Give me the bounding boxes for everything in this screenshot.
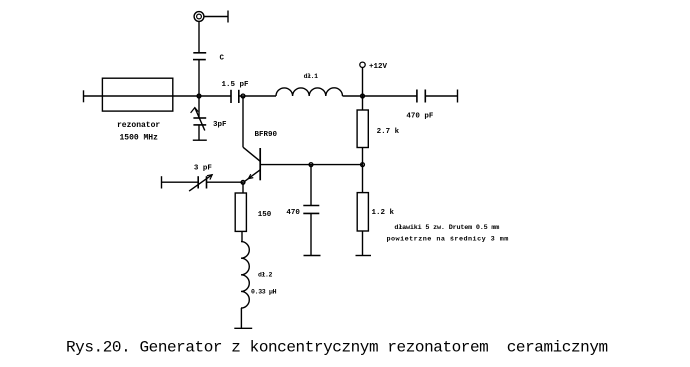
trimmer arrow [195,108,205,131]
svg-text:+12V: +12V [369,63,388,71]
wire [240,308,242,328]
node E [309,163,313,167]
svg-text:2.7 k: 2.7 k [377,128,400,136]
svg-text:1.5 pF: 1.5 pF [222,81,250,89]
resonator 1500 MHz [102,78,172,111]
wire (base bias line) [260,164,362,166]
wire [162,181,199,183]
wire [204,16,228,18]
node C (supply node) [361,94,365,98]
wire [239,95,276,97]
inductor dł.2 0.33 µH [241,242,249,308]
ground [234,327,252,329]
resistor 150 [242,182,244,193]
svg-text:1500 MHz: 1500 MHz [120,134,159,143]
wire [198,60,200,96]
node D (emitter node) [241,180,245,184]
resistor 1.2 k [362,165,364,193]
svg-text:1.2 k: 1.2 k [372,209,395,217]
svg-text:dł.1: dł.1 [304,73,319,80]
terminal tick (trimmer left) [161,176,163,188]
svg-text:BFR90: BFR90 [255,131,278,139]
ground [356,255,372,257]
wire (main line) [84,95,232,97]
svg-text:Rys.20. Generator z koncentryc: Rys.20. Generator z koncentrycznym rezon… [66,339,608,357]
svg-text:C: C [220,54,225,62]
inductor dł.1 [276,88,343,96]
svg-text:150: 150 [258,211,272,219]
node B (collector node) [241,94,245,98]
capacitor 1.5 pF [230,90,232,103]
svg-text:rezonator: rezonator [117,121,160,130]
wire [207,181,244,183]
svg-text:3 pF: 3 pF [194,164,213,172]
terminal tick [227,11,229,23]
wire [198,21,200,52]
svg-text:dławiki 5 zw. Drutem 0.5 mm: dławiki 5 zw. Drutem 0.5 mm [394,224,499,232]
trimmer capacitor 3pF [198,96,200,118]
connector J1 (coax socket) [194,12,204,22]
capacitor C [193,52,206,54]
svg-text:0.33 µH: 0.33 µH [251,289,277,296]
wire [343,95,417,97]
terminal tick (left) [83,90,85,102]
terminal tick [457,90,459,103]
node A [197,94,201,98]
+12V supply terminal [360,62,365,67]
node F [361,163,365,167]
svg-text:powietrzne na średnicy 3 mm: powietrzne na średnicy 3 mm [387,235,509,243]
ground tick [193,139,207,141]
svg-text:3pF: 3pF [213,121,227,129]
capacitor 470 (bypass) [310,165,312,206]
trimmer capacitor 3 pF (emitter) [197,176,199,188]
resistor 2.7 k [362,96,364,110]
svg-text:dł.2: dł.2 [258,272,273,279]
svg-text:470 pF: 470 pF [406,113,434,121]
ground [304,255,321,257]
transistor Q1 BFR90 [242,96,244,147]
svg-text:470: 470 [286,209,300,217]
capacitor 470 pF [416,90,418,103]
